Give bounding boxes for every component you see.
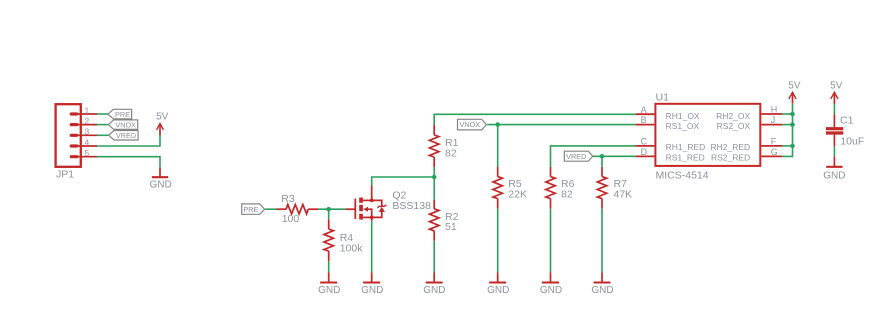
svg-text:100k: 100k xyxy=(340,242,364,254)
svg-text:PRE: PRE xyxy=(115,110,130,119)
svg-text:82: 82 xyxy=(561,189,573,201)
svg-text:BSS138: BSS138 xyxy=(392,200,431,212)
svg-text:VNOX: VNOX xyxy=(459,120,480,129)
svg-text:RH2_OX: RH2_OX xyxy=(716,111,750,121)
svg-text:1: 1 xyxy=(85,105,90,115)
svg-text:F: F xyxy=(771,136,777,146)
svg-text:GND: GND xyxy=(318,285,340,296)
svg-text:RH1_OX: RH1_OX xyxy=(666,111,700,121)
svg-text:G: G xyxy=(771,147,778,157)
svg-text:RH1_RED: RH1_RED xyxy=(666,142,706,152)
svg-text:H: H xyxy=(771,105,778,115)
svg-text:5: 5 xyxy=(85,148,90,158)
svg-text:MICS-4514: MICS-4514 xyxy=(656,170,709,182)
svg-text:2: 2 xyxy=(85,116,90,126)
svg-text:RS1_OX: RS1_OX xyxy=(666,121,700,131)
svg-text:47K: 47K xyxy=(614,189,633,201)
svg-text:5V: 5V xyxy=(788,80,801,91)
svg-text:GND: GND xyxy=(823,171,845,182)
svg-text:GND: GND xyxy=(591,285,613,296)
svg-text:GND: GND xyxy=(149,179,171,190)
svg-text:RS1_RED: RS1_RED xyxy=(666,152,705,162)
svg-text:C: C xyxy=(641,136,648,146)
svg-text:U1: U1 xyxy=(656,91,670,103)
svg-text:10uF: 10uF xyxy=(840,136,864,148)
svg-text:J: J xyxy=(771,115,776,125)
svg-text:GND: GND xyxy=(361,285,383,296)
svg-text:RH2_RED: RH2_RED xyxy=(711,142,751,152)
svg-text:RS2_RED: RS2_RED xyxy=(711,152,750,162)
svg-text:GND: GND xyxy=(487,285,509,296)
svg-text:82: 82 xyxy=(445,147,457,159)
svg-text:VRED: VRED xyxy=(116,131,136,140)
svg-text:RS2_OX: RS2_OX xyxy=(717,121,751,131)
svg-text:C1: C1 xyxy=(840,115,854,127)
svg-text:A: A xyxy=(641,105,647,115)
svg-text:VRED: VRED xyxy=(566,152,586,161)
svg-text:B: B xyxy=(641,115,647,125)
svg-text:GND: GND xyxy=(540,285,562,296)
svg-text:4: 4 xyxy=(85,137,90,147)
svg-text:D: D xyxy=(641,147,648,157)
svg-text:PRE: PRE xyxy=(243,205,258,214)
svg-text:22K: 22K xyxy=(508,189,527,201)
svg-text:JP1: JP1 xyxy=(56,169,74,181)
svg-text:51: 51 xyxy=(445,221,457,233)
svg-text:3: 3 xyxy=(85,127,90,137)
svg-text:R3: R3 xyxy=(281,193,295,205)
svg-text:5V: 5V xyxy=(830,80,843,91)
svg-text:5V: 5V xyxy=(156,111,169,122)
svg-text:100: 100 xyxy=(282,213,300,225)
svg-text:GND: GND xyxy=(423,285,445,296)
svg-text:VNOX: VNOX xyxy=(115,120,136,129)
